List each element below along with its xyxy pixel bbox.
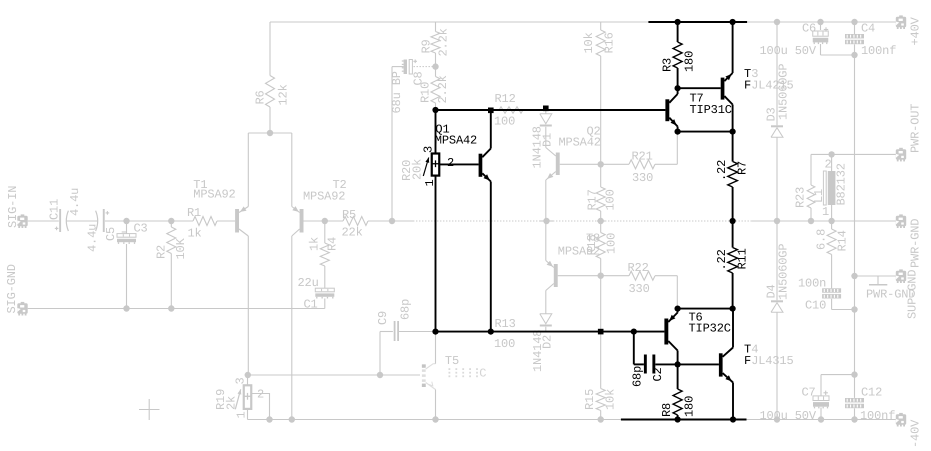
svg-text:.22: .22 — [715, 249, 729, 270]
pad PWR-OUT — [896, 148, 906, 162]
label -40V — [909, 419, 923, 448]
label 2 (R20 pin) — [447, 156, 454, 170]
label 100 (R17) — [604, 189, 618, 210]
node T4 emitter junction — [730, 416, 736, 422]
node R23 bottom — [808, 218, 814, 224]
svg-text:6.8: 6.8 — [815, 229, 829, 250]
wire T7 collector — [677, 88, 679, 94]
label PWR-GND horizontal — [866, 288, 915, 302]
node L1 top — [828, 151, 834, 157]
capacitor C2 68p — [634, 332, 719, 374]
label SIG-GND — [5, 264, 19, 313]
label R1 — [187, 206, 201, 220]
svg-text:68p: 68p — [399, 299, 413, 320]
label 100nf (C4) — [861, 44, 896, 58]
svg-text:C1: C1 — [304, 298, 318, 312]
label 4.4u (C5) — [86, 224, 100, 252]
label R13 — [495, 317, 516, 331]
transistor T1 MPSA92 — [235, 206, 248, 236]
svg-text:R3: R3 — [661, 58, 675, 72]
label SUP-GND — [906, 270, 920, 319]
svg-text:C8: C8 — [412, 71, 426, 85]
resistor R4 — [320, 221, 329, 288]
diode D4 1N5060GP — [771, 300, 783, 312]
label 100u 50V (C6) — [760, 44, 817, 58]
label C7 — [802, 386, 816, 400]
svg-text:C5: C5 — [104, 227, 118, 241]
wire output top link — [811, 153, 896, 155]
svg-text:10K: 10K — [174, 237, 188, 259]
wire R21 left — [601, 163, 629, 165]
wire T3 base — [678, 87, 721, 89]
pad -40V — [896, 413, 906, 427]
svg-text:MPSA92: MPSA92 — [193, 188, 235, 202]
node C10 spine junction — [851, 306, 857, 312]
label R22 — [628, 261, 649, 275]
svg-text:SIG-IN: SIG-IN — [6, 186, 20, 228]
wire T8 emitter — [545, 221, 547, 261]
wire T5 emitter — [435, 390, 437, 420]
svg-text:100u 50V: 100u 50V — [760, 44, 817, 58]
svg-text:F: F — [744, 354, 751, 368]
label 20k (R20) — [411, 159, 425, 180]
svg-text:SIG-GND: SIG-GND — [5, 264, 19, 313]
transistor Q2 MPSA42 — [546, 148, 560, 181]
label 180 (R8) — [683, 396, 697, 417]
label R11 — [736, 248, 750, 269]
node output/diode junction — [774, 218, 780, 224]
wire output line solid a — [392, 220, 413, 222]
node Q1 collector junction — [488, 108, 494, 114]
label R19 — [214, 389, 228, 410]
node C9 branch — [377, 372, 383, 378]
wire C11 to C5 — [67, 220, 98, 222]
node R2 tap — [168, 218, 174, 224]
resistor R3 — [673, 22, 682, 88]
svg-text:1k: 1k — [308, 237, 322, 251]
node spine PWR-GND tap — [851, 273, 857, 279]
label C10 — [805, 299, 826, 313]
svg-text:R7: R7 — [736, 161, 750, 175]
svg-text:20k: 20k — [411, 159, 425, 180]
svg-text:R12: R12 — [495, 92, 516, 106]
label 1N5060GP (D3) — [777, 64, 791, 120]
svg-text:100n: 100n — [798, 277, 826, 291]
svg-text:1: 1 — [822, 205, 829, 219]
svg-text:JL4315: JL4315 — [751, 354, 793, 368]
node C12 ground — [851, 416, 857, 422]
svg-text:22u: 22u — [298, 276, 319, 290]
label 100 (R12) — [494, 115, 515, 129]
wire C5 to R1 — [105, 220, 193, 222]
label R6 — [254, 90, 268, 104]
svg-text:100: 100 — [604, 189, 618, 210]
label 12k — [277, 84, 291, 105]
svg-text:1: 1 — [235, 411, 249, 418]
svg-text:R5: R5 — [342, 208, 356, 222]
label R7 — [736, 161, 750, 175]
svg-text:R22: R22 — [628, 261, 649, 275]
svg-text:C6: C6 — [802, 22, 816, 36]
wire T1 collector — [247, 236, 249, 375]
label 10K — [174, 237, 188, 259]
label R18 — [585, 234, 599, 255]
wire T2 collector — [291, 236, 293, 420]
label R21 — [632, 150, 653, 164]
wire D4 lower — [776, 312, 778, 419]
wire C9 right — [399, 331, 433, 333]
label 1k (R4) — [308, 237, 322, 251]
svg-text:C11: C11 — [48, 199, 62, 220]
transistor T4 — [719, 348, 733, 383]
wire T7 emitter — [677, 127, 679, 132]
label R4 — [326, 237, 340, 251]
label SIG-IN — [6, 186, 20, 228]
resistor R6 — [266, 22, 275, 133]
label T1 — [193, 178, 207, 192]
label 100nf (C12) — [860, 409, 895, 423]
svg-text:F: F — [744, 79, 751, 93]
diode D2 1N4148 — [540, 314, 552, 331]
transistor T6 TIP32C — [664, 313, 677, 351]
pad PWR-GND — [896, 214, 906, 228]
label C1 — [304, 298, 318, 312]
label 4.4u (C11) — [68, 188, 82, 216]
wire output line dotted d — [553, 220, 597, 222]
wire Q2 emitter — [545, 180, 547, 221]
node R17/R18 rail — [598, 218, 604, 224]
transistor T3 — [721, 73, 733, 105]
label C6 — [802, 22, 816, 36]
svg-text:R23: R23 — [794, 187, 808, 208]
label C4 — [861, 22, 875, 36]
label 1 (R19 pin) — [235, 411, 249, 418]
label 6.8 (R14) — [815, 229, 829, 250]
label 180 (R3) — [683, 51, 697, 72]
wire SIG-GND rail — [28, 308, 325, 310]
svg-text:R21: R21 — [632, 150, 653, 164]
node D1 junction — [543, 106, 549, 112]
node C3 ground — [123, 305, 129, 311]
label R10 — [419, 82, 433, 103]
wire +40V top rail left segment — [270, 21, 648, 23]
wire C8 dotted link — [414, 66, 433, 68]
label .22 (R11) — [715, 249, 729, 270]
svg-text:2.2k: 2.2k — [436, 75, 450, 103]
wire T8 base — [558, 275, 601, 277]
label D4 — [765, 284, 779, 298]
transistor T8 MPSA92 — [546, 261, 558, 291]
svg-text:R9: R9 — [420, 39, 434, 53]
svg-text:C7: C7 — [802, 386, 816, 400]
label 68u BP — [390, 71, 404, 113]
svg-text:R16: R16 — [603, 32, 617, 53]
transistor T2 MPSA92 — [292, 206, 304, 236]
label 330 (R21) — [632, 171, 653, 185]
wire T5 collector — [435, 332, 437, 364]
wire R13 black — [436, 331, 665, 333]
wire Q1 emitter — [490, 182, 492, 332]
label 1N4148 (D1) — [531, 126, 545, 168]
label 330 (R22) — [629, 282, 650, 296]
svg-text:R4: R4 — [326, 237, 340, 251]
label TIP32C (T6) — [689, 322, 731, 336]
wire R22 right — [655, 276, 677, 307]
label T8 — [586, 232, 600, 246]
label R16 — [603, 32, 617, 53]
label D2 — [541, 335, 555, 349]
svg-text:R2: R2 — [155, 245, 169, 259]
wire output line dotted f — [605, 220, 730, 222]
node feedback junction — [389, 218, 395, 224]
wire ground spine — [854, 55, 856, 398]
svg-text:C3: C3 — [134, 222, 148, 236]
wire +40V rail black segment — [648, 21, 747, 23]
label L1 — [812, 189, 826, 203]
svg-text:+40V: +40V — [909, 16, 923, 45]
label 10k (R16) — [582, 32, 596, 53]
node T2 collector ground — [289, 416, 295, 422]
wire C10 to spine — [832, 299, 855, 310]
diode D1 1N4148 — [540, 111, 552, 148]
resistor R11 — [728, 221, 738, 309]
capacitor C9 — [394, 321, 399, 341]
label +40V — [909, 16, 923, 45]
label 1 (R20 pin) — [423, 179, 437, 186]
node R18-column crossing — [598, 329, 604, 335]
label PWR-OUT — [909, 104, 923, 153]
resistor R18 — [596, 221, 605, 276]
node R19 top junction — [245, 372, 251, 378]
label C8 — [412, 71, 426, 85]
capacitor C6 — [813, 22, 829, 55]
svg-text:JL4215: JL4215 — [751, 79, 793, 93]
wire D3 upper — [776, 22, 778, 125]
svg-text:330: 330 — [629, 282, 650, 296]
svg-text:D1: D1 — [541, 133, 555, 147]
svg-text:100: 100 — [494, 337, 515, 351]
label R5 — [342, 208, 356, 222]
wire Q1 collector — [490, 110, 492, 148]
label 68p (C2) — [631, 366, 645, 387]
label PWR-GND rotated — [909, 219, 923, 268]
wire output line dotted b — [413, 220, 540, 222]
svg-text:C4: C4 — [861, 22, 875, 36]
label R14 — [836, 230, 850, 251]
resistor R7 — [728, 132, 738, 221]
wire C8 down branch — [391, 67, 393, 221]
node R7 top junction — [730, 129, 736, 135]
svg-text:330: 330 — [632, 171, 653, 185]
label FJL4315 (T4) — [744, 354, 794, 368]
label R12 — [495, 92, 516, 106]
node R15 ground — [598, 416, 604, 422]
label MPSA92 (T2) — [303, 190, 345, 204]
wire SIG-IN to C11 — [28, 220, 59, 222]
label C5 — [104, 227, 118, 241]
label 3 (R19 pin) — [234, 377, 248, 384]
wire D4 upper — [776, 221, 778, 300]
label T5 value ghost — [449, 366, 487, 380]
wire T4 emitter — [732, 383, 734, 420]
label C2 — [651, 367, 665, 381]
label R23 — [794, 187, 808, 208]
wire output line solid h — [752, 220, 896, 222]
ground symbol SUP-GND — [869, 276, 887, 285]
label 2 (R19 pin) — [257, 388, 264, 402]
label T4 — [744, 343, 758, 357]
node C4 rail tap — [851, 19, 857, 25]
label 100n (C10) — [798, 277, 826, 291]
resistor R1 — [193, 217, 217, 226]
wire T3 collector — [732, 22, 734, 73]
capacitor C3 — [117, 221, 136, 309]
svg-text:B82132: B82132 — [835, 163, 849, 205]
label R2 — [155, 245, 169, 259]
svg-text:22k: 22k — [342, 226, 363, 240]
svg-text:3: 3 — [234, 377, 248, 384]
wire VAS top black — [436, 109, 666, 111]
svg-text:C9: C9 — [376, 311, 390, 325]
node R3/T3 base junction — [675, 85, 681, 91]
label 1k (R1) — [188, 227, 202, 241]
label T2 — [333, 178, 347, 192]
resistor R2 — [167, 221, 176, 309]
svg-text:4.4u: 4.4u — [86, 224, 100, 252]
svg-text:2.2k: 2.2k — [437, 28, 451, 56]
svg-text:T5: T5 — [445, 354, 459, 368]
label FJL4215 (T3) — [744, 79, 794, 93]
node supply ground spine top — [851, 52, 857, 58]
svg-text:1k: 1k — [188, 227, 202, 241]
label C11 — [48, 199, 62, 220]
wire T1 collector to T5 base — [248, 374, 420, 376]
label 22k (R5) — [342, 226, 363, 240]
svg-text:10k: 10k — [582, 32, 596, 53]
label D1 — [541, 133, 555, 147]
node R13 left junction — [432, 329, 438, 335]
label MPSA42 (Q2) — [559, 136, 601, 150]
wire output line solid e — [597, 220, 605, 222]
label R20 — [400, 160, 414, 181]
label T3 — [744, 67, 758, 81]
label 10k (R15) — [604, 389, 618, 410]
resistor R12 — [499, 107, 523, 113]
svg-text:-40V: -40V — [909, 419, 923, 448]
resistor R22 — [629, 271, 655, 280]
label R17 — [586, 189, 600, 210]
diode D3 1N5060GP — [771, 125, 783, 137]
wire D3 lower — [776, 137, 778, 221]
svg-text:C: C — [479, 366, 486, 380]
capacitor C1 — [315, 288, 334, 308]
node L1 bottom — [828, 218, 834, 224]
label MPSA42 (Q1) — [435, 134, 477, 148]
wire R5 right — [368, 220, 392, 222]
label 3 (R20 pin) — [422, 146, 436, 153]
resistor R8 — [673, 364, 682, 419]
svg-text:R15: R15 — [583, 389, 597, 410]
node output junction — [730, 218, 736, 224]
wire C9 branch — [380, 332, 393, 376]
svg-text:MPSA42: MPSA42 — [435, 134, 477, 148]
capacitor C11 — [55, 209, 69, 232]
svg-text:C10: C10 — [805, 299, 826, 313]
label R8 — [660, 403, 674, 417]
wire T3 emitter — [732, 105, 734, 132]
node R8 ground junction — [675, 416, 681, 422]
svg-text:2: 2 — [257, 388, 264, 402]
label 22u — [298, 276, 319, 290]
node diff emitter junction — [267, 130, 273, 136]
resistor R10 — [431, 67, 440, 109]
svg-text:.22: .22 — [715, 160, 729, 181]
node R11 bottom junction — [730, 306, 736, 312]
wire T6 collector — [677, 351, 679, 365]
pad SIG-GND — [17, 302, 27, 316]
capacitor C5 — [96, 209, 110, 232]
node R19 pin2 junction — [266, 416, 272, 422]
node VAS top junction — [432, 107, 438, 113]
wire R5 left — [325, 220, 343, 222]
wire Q2 base — [560, 163, 601, 165]
resistor R9 — [431, 22, 440, 67]
resistor R16 — [596, 22, 605, 164]
node C8 junction — [432, 63, 438, 69]
label R15 — [583, 389, 597, 410]
capacitor C8 — [402, 60, 417, 75]
trimmer R20 — [423, 110, 439, 332]
inductor L1 B82132 — [823, 154, 835, 221]
svg-text:L1: L1 — [812, 189, 826, 203]
node Q1 emitter junction — [488, 329, 494, 335]
svg-text:R1: R1 — [187, 206, 201, 220]
wire R22 left — [601, 275, 629, 277]
svg-text:C2: C2 — [651, 367, 665, 381]
wire R20 wiper to Q1 base — [439, 163, 479, 165]
node D4 ground — [774, 416, 780, 422]
wire R1 to T1 base — [217, 220, 235, 222]
pad +40V — [896, 15, 906, 29]
node C7 ground — [818, 416, 824, 422]
node R8 top junction — [675, 361, 681, 367]
label TIP31C (T7) — [690, 103, 732, 117]
svg-text:68p: 68p — [631, 366, 645, 387]
label 1N5060GP (D4) — [777, 244, 791, 300]
svg-text:R6: R6 — [254, 90, 268, 104]
resistor R14 — [827, 221, 836, 288]
svg-text:R14: R14 — [836, 230, 850, 251]
wire T6 emitter — [677, 309, 679, 313]
wire bottom rail gray right — [747, 419, 897, 421]
svg-text:MPSA42: MPSA42 — [559, 136, 601, 150]
transistor Q1 MPSA42 — [479, 149, 491, 182]
svg-text:100: 100 — [494, 115, 515, 129]
pad SUP-GND — [896, 269, 906, 283]
resistor R15 — [596, 389, 605, 420]
node T5 emitter ground — [432, 416, 438, 422]
resistor R5 — [343, 217, 368, 226]
label T5 — [445, 354, 459, 368]
svg-text:R18: R18 — [585, 234, 599, 255]
label 2.2k (R10) — [436, 75, 450, 103]
wire bottom rail gray left — [248, 419, 621, 421]
svg-text:3: 3 — [422, 146, 436, 153]
svg-text:SUP-GND: SUP-GND — [906, 270, 920, 319]
transistor T7 TIP31C — [665, 94, 677, 127]
pad SIG-IN — [17, 214, 27, 228]
svg-text:TIP32C: TIP32C — [689, 322, 731, 336]
